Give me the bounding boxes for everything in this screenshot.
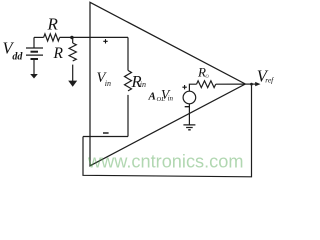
plus sign above source [182,85,186,89]
wire Rin bottom [127,95,129,137]
svg-text:dd: dd [12,52,23,63]
svg-text:in: in [105,79,111,88]
dependent source U2 circle [183,91,196,104]
earth ground symbol [183,125,195,130]
wire source bottom to ground [188,104,190,125]
plus sign noninverting input [103,39,107,43]
wire R2 to ground [72,65,74,81]
output wire from apex [245,83,256,85]
battery V1 top stub wire [33,37,35,48]
output arrowhead [255,82,260,86]
svg-text:in: in [140,80,146,89]
output junction dot [250,83,253,86]
minus sign inverting input [103,132,109,134]
feedback wire left/bottom/right [83,84,252,177]
svg-text:www.cntronics.com: www.cntronics.com [87,152,244,172]
svg-text:R: R [47,15,59,34]
wire source top to Ro [189,84,196,91]
svg-text:ref: ref [265,76,274,85]
resistor Rin [125,70,132,91]
ground arrow under battery [33,59,35,74]
resistor R1 (horizontal R) [44,34,60,41]
wire node A down to R2 [72,38,74,44]
wire R1 to node A [60,36,128,38]
node A junction dot [70,36,73,39]
svg-text:R: R [53,45,64,62]
battery V1 plates [26,47,43,49]
minus sign below source [185,106,190,108]
wire battery to R1 [34,36,44,38]
op-amp U1 triangle [90,2,245,166]
resistor R2 (vertical R) [69,43,76,61]
resistor Ro [197,81,216,88]
wire Rin right edge top [127,37,129,70]
wire Ro to apex [216,83,246,85]
svg-text:o: o [205,72,209,80]
svg-text:A: A [148,91,156,103]
svg-text:in: in [168,95,174,103]
ground arrow under R2 [68,81,77,87]
wire inverting input bottom edge [83,136,128,138]
